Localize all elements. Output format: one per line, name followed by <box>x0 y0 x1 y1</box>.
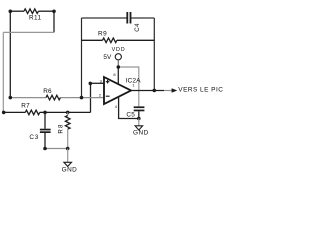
resistor R8 <box>65 112 70 148</box>
resistor R7 <box>3 110 90 115</box>
svg-text:GND: GND <box>62 167 78 174</box>
node R8 top <box>66 111 70 115</box>
resistor R11 <box>10 9 54 14</box>
svg-text:R8: R8 <box>57 123 64 133</box>
node VDD <box>117 65 121 69</box>
node C3 bottom <box>43 147 47 151</box>
node pin3 corner <box>89 82 93 86</box>
wire R11 right lead down <box>53 11 55 32</box>
capacitor C5 <box>126 106 144 118</box>
wire pin8 down <box>117 67 119 85</box>
supply VDD <box>103 47 125 67</box>
svg-text:R11: R11 <box>29 14 41 21</box>
wire pin3 stub <box>91 82 105 84</box>
ground GND2 <box>133 119 149 137</box>
capacitor C3 <box>29 112 50 148</box>
wire bottom rail gray <box>45 148 68 150</box>
svg-text:5V: 5V <box>103 54 112 61</box>
plus input mark <box>106 80 110 84</box>
resistor R6 <box>46 95 60 100</box>
resistor R9 <box>82 38 155 43</box>
wire R6 row gray left <box>10 97 46 99</box>
node feedback/pin2 junction <box>80 96 84 100</box>
svg-text:R7: R7 <box>21 103 30 110</box>
svg-text:R9: R9 <box>98 30 107 37</box>
node output <box>153 89 157 93</box>
svg-text:R6: R6 <box>43 88 52 95</box>
node C3 top <box>43 111 47 115</box>
svg-text:C5: C5 <box>126 111 135 118</box>
svg-text:C3: C3 <box>29 134 39 141</box>
wire output gray segment <box>164 90 172 92</box>
node R8 bottom <box>66 147 70 151</box>
wire pin4 <box>119 96 139 118</box>
wire C4 top row <box>82 17 127 19</box>
node R11 left <box>9 10 13 14</box>
capacitor C4 <box>126 12 141 32</box>
wire gray feedback horizontal <box>3 31 54 33</box>
minus input mark <box>106 95 110 97</box>
wire VDD to C5 gray <box>118 67 139 107</box>
node R6 left <box>9 96 13 100</box>
wire feedback right vertical <box>153 18 155 91</box>
wire feedback left vertical <box>81 18 83 98</box>
wire gray feedback vertical <box>2 32 4 112</box>
wire output <box>131 90 164 92</box>
svg-text:GND: GND <box>133 130 149 137</box>
svg-text:VDD: VDD <box>112 47 126 53</box>
svg-text:C4: C4 <box>134 23 141 32</box>
arrow to PIC <box>172 88 178 93</box>
wire R11 left lead down <box>9 11 11 97</box>
node C5 bottom / pin4 <box>137 117 141 121</box>
wire pin2 row gray right <box>60 97 104 99</box>
svg-text:VERS LE PIC: VERS LE PIC <box>178 86 223 93</box>
op-amp IC2A <box>99 72 141 109</box>
ground GND1 <box>62 149 78 174</box>
node R7 left <box>2 111 6 115</box>
node R11 right <box>52 10 56 14</box>
wire pin3 vertical <box>90 83 92 112</box>
